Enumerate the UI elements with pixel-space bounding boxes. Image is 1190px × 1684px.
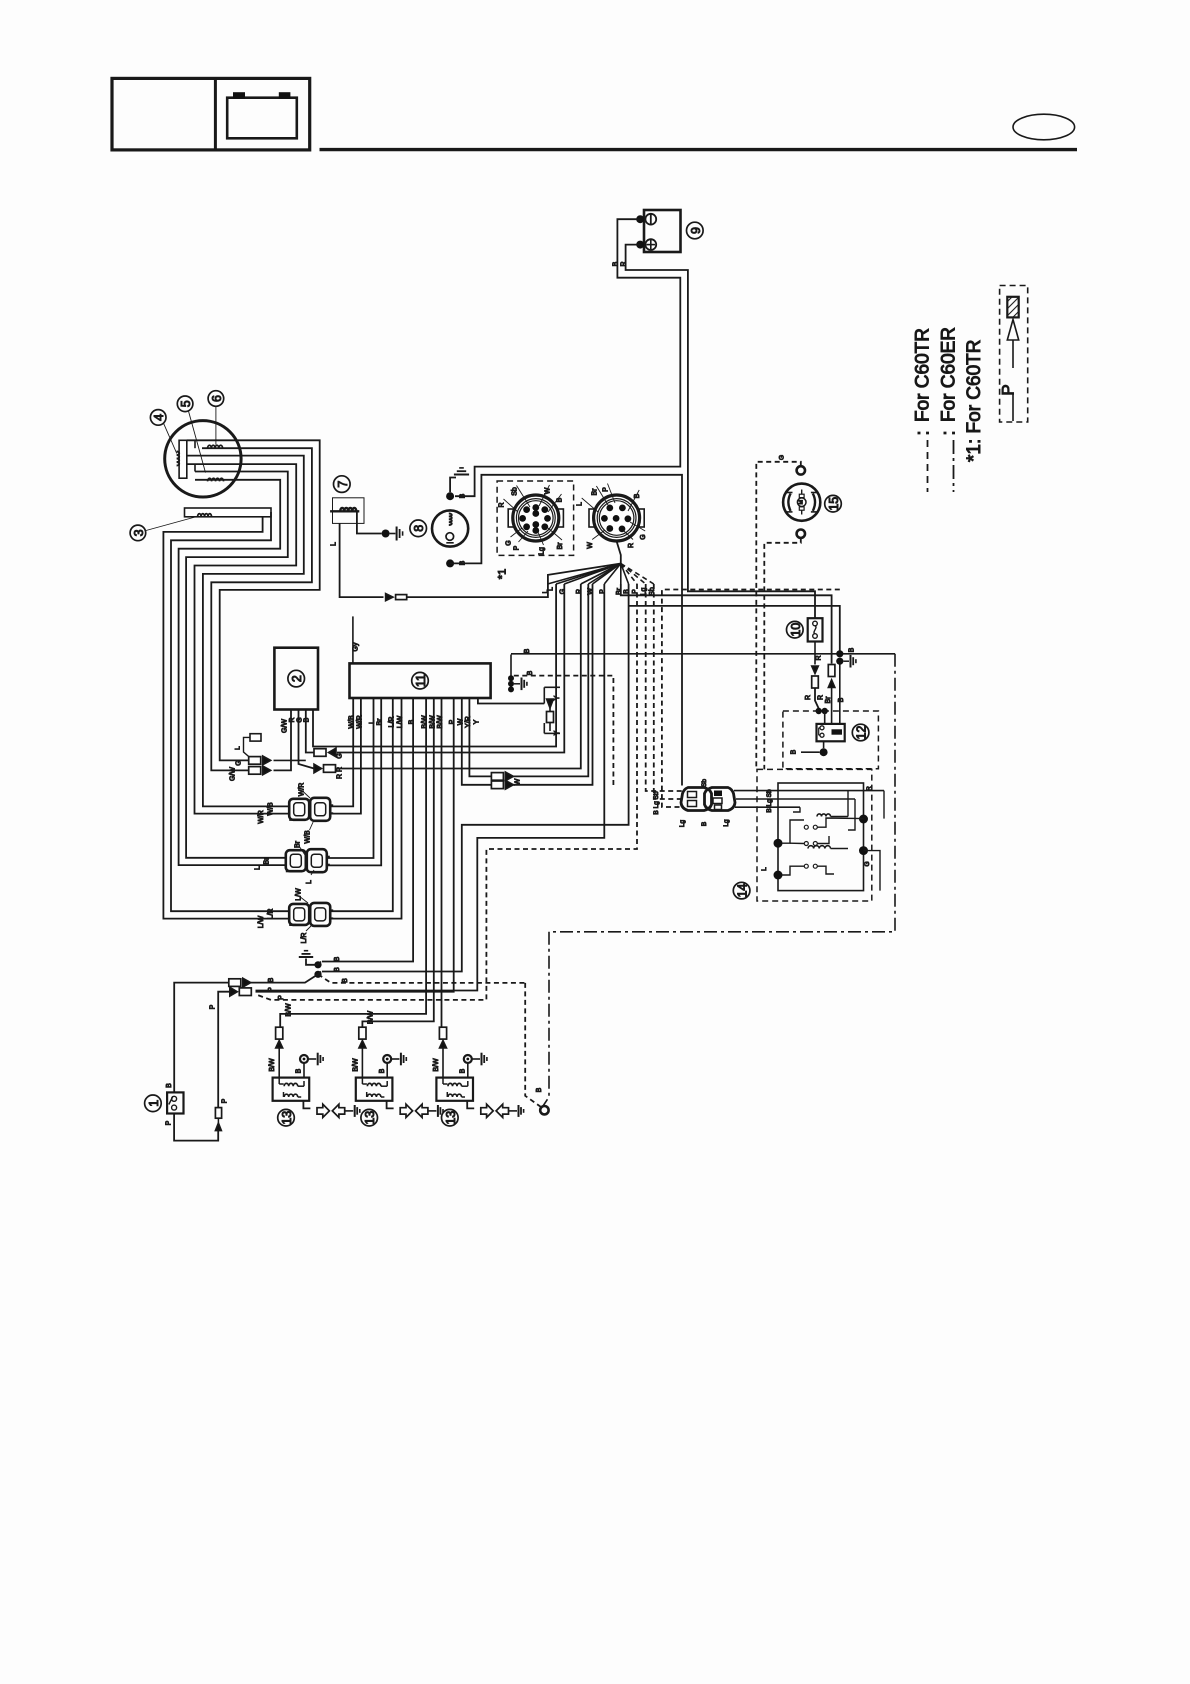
svg-text:1: 1: [147, 1100, 161, 1107]
svg-text:For C60ER: For C60ER: [939, 327, 960, 422]
bullet pair G: [249, 757, 261, 765]
svg-text:3: 3: [132, 529, 146, 536]
svg-text:B/W: B/W: [422, 715, 429, 729]
flywheel magneto circle: [165, 421, 241, 497]
Y/R W bullet connectors: [491, 773, 503, 781]
svg-text:9: 9: [689, 227, 703, 234]
wire YR harness: [513, 584, 589, 776]
CDI pin L/R wire: [331, 698, 393, 911]
label 13: [361, 1109, 378, 1126]
svg-text:P: P: [998, 384, 1017, 395]
svg-text:Br: Br: [264, 857, 271, 865]
svg-text:L/W: L/W: [258, 915, 265, 928]
svg-text:P: P: [632, 589, 639, 594]
magneto wire 4: [187, 464, 296, 813]
svg-text:R: R: [805, 695, 812, 700]
svg-text:L: L: [331, 542, 338, 546]
svg-text:Br: Br: [616, 587, 623, 595]
wire R harness: [337, 584, 581, 769]
label 13: [442, 1109, 459, 1126]
svg-text:B: B: [624, 589, 631, 594]
svg-text:W: W: [587, 542, 594, 549]
Gy wire: [352, 616, 354, 663]
svg-text:B/W: B/W: [286, 1003, 293, 1017]
svg-text:B: B: [612, 261, 619, 266]
label 3: [130, 525, 146, 541]
CDI pin W/B wire: [331, 698, 354, 806]
svg-text::: :: [913, 430, 934, 435]
svg-text:L/R: L/R: [268, 909, 275, 920]
svg-text:B: B: [701, 822, 708, 826]
relay U12: [817, 724, 845, 741]
legend arrow up: [1007, 320, 1018, 341]
label 7: [334, 476, 351, 493]
label 15: [825, 495, 842, 512]
svg-text:15: 15: [827, 497, 841, 511]
wire P harness: [256, 584, 605, 991]
header rule: [320, 148, 1078, 151]
svg-text:B/W: B/W: [433, 1058, 440, 1072]
svg-text:B/W: B/W: [429, 715, 436, 729]
svg-text:B Lg Sb: B Lg Sb: [653, 791, 660, 815]
label 9: [687, 222, 704, 239]
PTT motor terminals: [797, 466, 805, 474]
connector B tail: [617, 541, 621, 563]
svg-text:B/W: B/W: [368, 1011, 375, 1025]
svg-text:L/R: L/R: [388, 717, 395, 728]
connector A labels: [517, 486, 531, 508]
svg-text:2: 2: [290, 675, 304, 682]
svg-text:R: R: [816, 655, 823, 660]
U2 pin G: [306, 710, 314, 753]
svg-text:M: M: [799, 499, 805, 504]
svg-text:L/W: L/W: [295, 888, 302, 901]
charge coil 5: [194, 464, 196, 471]
svg-text:L/W: L/W: [397, 715, 404, 728]
svg-text:R: R: [576, 589, 583, 594]
U8 bottom terminal: [446, 559, 454, 567]
U2 pin B: [313, 584, 556, 747]
CDI unit U11: [350, 663, 491, 698]
thermo switch U7: [333, 498, 365, 524]
svg-text:Lg: Lg: [539, 547, 546, 555]
U2 pin R: [299, 710, 315, 769]
svg-text:B Lg Sb: B Lg Sb: [766, 789, 773, 813]
wire B dashed trim: [662, 590, 840, 808]
svg-text:B: B: [557, 497, 564, 502]
U8 B wire to harness: [450, 475, 682, 786]
svg-text:P: P: [222, 1098, 229, 1103]
ground junction dots: [314, 961, 321, 968]
ignition coil U13: [436, 1078, 473, 1101]
svg-text:13: 13: [444, 1111, 458, 1125]
svg-text::: :: [939, 430, 960, 435]
legend P symbol dashed box: [1000, 286, 1028, 423]
svg-text:B: B: [409, 719, 416, 724]
dashed option box relay: [783, 711, 879, 769]
PTT switch frame wires: [781, 800, 783, 843]
svg-text:8: 8: [412, 525, 426, 532]
svg-text:W/B: W/B: [268, 802, 275, 816]
svg-text:P: P: [210, 1004, 217, 1009]
svg-text:B: B: [527, 670, 534, 675]
bullet pair G right: [314, 749, 326, 757]
svg-text:G: G: [337, 753, 344, 758]
dash-dot B wire right: [543, 654, 895, 1106]
L terminal small: [250, 734, 261, 741]
relay B terminal: [823, 741, 825, 748]
bullet pair G/W: [249, 767, 261, 775]
CDI pin B wire: [322, 698, 413, 962]
svg-text:L: L: [255, 866, 262, 870]
svg-text:R: R: [621, 261, 628, 266]
svg-text:14: 14: [736, 884, 750, 898]
PTT motor dashed wires: [756, 462, 801, 770]
svg-text:W: W: [545, 487, 552, 494]
dashed box *1: [497, 481, 573, 555]
svg-text:P: P: [514, 545, 521, 550]
svg-text:Lg: Lg: [679, 820, 686, 828]
svg-text:13: 13: [280, 1111, 294, 1125]
svg-text:B: B: [268, 977, 275, 982]
svg-text:Y: Y: [554, 695, 561, 700]
svg-text:B: B: [334, 956, 341, 961]
wire Br harness: [621, 584, 832, 664]
svg-text:R: R: [818, 695, 825, 700]
svg-text:R: R: [289, 717, 296, 722]
svg-text:L/R: L/R: [301, 933, 308, 944]
svg-text:G: G: [297, 717, 304, 722]
svg-text:11: 11: [414, 674, 428, 687]
page oval: [1013, 114, 1075, 140]
svg-text:L: L: [235, 746, 242, 750]
R wire below fuse: [814, 642, 816, 665]
B wire junction to relay: [839, 661, 841, 724]
fuse U10: [808, 618, 823, 641]
svg-text:12: 12: [855, 726, 869, 740]
svg-text:Sb: Sb: [512, 487, 519, 496]
svg-text:7: 7: [336, 481, 350, 488]
B terminal ring: [540, 1106, 548, 1114]
svg-text:Y: Y: [554, 730, 561, 735]
label 12: [852, 724, 869, 741]
svg-text:B: B: [379, 1068, 386, 1073]
svg-text:W: W: [457, 718, 464, 725]
svg-text:P: P: [449, 719, 456, 724]
svg-text:L: L: [543, 589, 550, 593]
wire battery B: [455, 219, 680, 496]
svg-text:B: B: [334, 967, 341, 972]
svg-text:B: B: [524, 648, 531, 653]
CDI pin L wire: [327, 698, 373, 858]
CDI pin L/W wire: [331, 698, 402, 919]
wire B harness: [322, 584, 629, 972]
trim ground junction: [836, 650, 843, 657]
stator core T: [179, 440, 187, 478]
svg-text:*1: For C60TR: *1: For C60TR: [964, 340, 985, 462]
svg-text:5: 5: [179, 400, 193, 407]
PTT switch internals: [774, 839, 783, 848]
svg-text:B: B: [634, 493, 641, 498]
wire Lg dashed harness: [646, 584, 683, 791]
svg-text:B: B: [460, 493, 467, 498]
junction B wires: [318, 962, 321, 965]
header box: [112, 78, 310, 149]
svg-text:*1: *1: [497, 569, 509, 579]
label 8: [410, 520, 427, 537]
bullet pair P bottom: [230, 987, 238, 996]
wire B harness branch to ground junction: [629, 606, 840, 652]
Br bullet pair vertical: [828, 665, 835, 677]
P wire to stop switch circuit: [218, 992, 230, 1108]
coil 3 wire A: [163, 517, 289, 919]
svg-text:L: L: [369, 720, 376, 724]
svg-text:G: G: [640, 534, 647, 539]
svg-text:Sb: Sb: [701, 779, 708, 787]
B bus junction dots: [510, 655, 512, 692]
wire G harness: [337, 584, 564, 753]
svg-text:Br: Br: [591, 488, 598, 496]
connector pair W/R W/B: [289, 799, 309, 820]
CDI pin P wire: [256, 698, 454, 992]
magneto wire 2: [202, 448, 312, 770]
wire P dashed harness: [258, 584, 637, 1000]
svg-text:G: G: [779, 455, 786, 460]
svg-text:B: B: [166, 1083, 173, 1088]
U8 top terminal: [446, 492, 454, 500]
trim connector pair: [681, 788, 712, 811]
connector on L wire: [386, 594, 393, 601]
svg-text:Lg: Lg: [641, 588, 648, 596]
svg-text:Br: Br: [825, 696, 832, 704]
svg-text:W: W: [515, 778, 522, 785]
svg-text:W/R: W/R: [258, 810, 265, 824]
ignition coil U13: [356, 1078, 393, 1101]
R bullet pair vertical: [812, 666, 819, 674]
sensor U8: [432, 510, 468, 546]
PTT motor U15: [783, 484, 820, 521]
coil U3 bar: [185, 508, 272, 517]
trim connector wires to switch: [734, 790, 884, 792]
svg-text:10: 10: [789, 623, 803, 637]
battery U9: [644, 210, 681, 252]
svg-text:B: B: [296, 1068, 303, 1073]
magneto wire 1: [187, 440, 320, 760]
svg-text:B: B: [791, 749, 798, 754]
wire battery R: [626, 245, 815, 619]
B wire to stop switch: [174, 983, 229, 1093]
lighting coil 6: [194, 440, 196, 448]
svg-text:L: L: [761, 867, 768, 871]
CDI pin Y wire + fuse: [478, 698, 544, 704]
CDI pin W wire: [462, 698, 492, 785]
svg-text:B/W: B/W: [437, 715, 444, 729]
svg-text:P: P: [268, 987, 275, 992]
svg-text:R: R: [499, 502, 506, 507]
label 10: [787, 621, 804, 638]
U7 ground wire: [357, 511, 382, 533]
svg-text:B: B: [460, 1068, 467, 1073]
bullet pair B bottom: [229, 979, 241, 987]
label 6: [208, 391, 224, 407]
svg-text:P: P: [278, 995, 285, 1000]
label 13: [278, 1109, 295, 1126]
connector B labels: [596, 486, 608, 505]
svg-text:Br: Br: [377, 718, 384, 726]
svg-text:Br: Br: [557, 542, 564, 550]
engine stop switch U1: [167, 1092, 183, 1113]
svg-text:R R: R R: [337, 767, 344, 779]
svg-text:B/W: B/W: [269, 1058, 276, 1072]
connector pair L/W L/R: [289, 904, 309, 925]
svg-text:W/R: W/R: [356, 715, 363, 729]
svg-text:B/W: B/W: [352, 1058, 359, 1072]
svg-text:G: G: [864, 861, 871, 866]
CDI pin Y/R wire: [469, 698, 491, 776]
wire Sb dashed harness: [654, 584, 683, 799]
junction B dashed wire: [318, 974, 525, 983]
svg-text:13: 13: [363, 1111, 377, 1125]
svg-text:P: P: [603, 487, 610, 492]
ignition coil U13: [273, 1078, 310, 1101]
svg-text:B: B: [838, 697, 845, 702]
svg-text:B: B: [342, 978, 349, 983]
svg-text:B: B: [849, 647, 856, 652]
rectifier U2: [274, 648, 318, 710]
B bus ground: [514, 683, 520, 685]
connector pair Br L: [286, 850, 306, 871]
svg-text:W/B: W/B: [349, 715, 356, 729]
svg-text:For C60TR: For C60TR: [913, 328, 934, 422]
magneto wire 3: [187, 456, 304, 807]
dashed box U14: [757, 769, 872, 901]
svg-text:L: L: [577, 502, 584, 506]
pulser coil 4: [177, 452, 180, 466]
magneto wire 6: [179, 480, 287, 865]
svg-text:R: R: [628, 543, 635, 548]
svg-text:Lg: Lg: [723, 819, 730, 827]
label 14: [733, 882, 750, 899]
svg-text:Y/R: Y/R: [465, 716, 472, 728]
round connector A: [508, 509, 513, 527]
svg-text:L: L: [306, 880, 313, 884]
wire W harness: [513, 584, 593, 785]
svg-text:Y: Y: [473, 719, 480, 724]
svg-text:W/B: W/B: [305, 830, 312, 844]
U2 pin G/W: [274, 710, 292, 771]
U1 P wire: [174, 1114, 218, 1141]
svg-text:R: R: [866, 786, 873, 791]
PTT switch box: [778, 783, 864, 891]
round connector B: [589, 509, 594, 527]
svg-text:6: 6: [210, 395, 224, 402]
magneto wire 5: [186, 472, 288, 858]
bullet pair R right: [314, 764, 322, 773]
battery icon: [227, 98, 297, 139]
svg-text:G: G: [559, 589, 566, 594]
CDI pin Br wire: [327, 698, 381, 865]
svg-text:Br: Br: [295, 840, 302, 848]
svg-text:4: 4: [152, 414, 166, 421]
B bus line: [511, 653, 895, 655]
svg-text:G: G: [236, 760, 243, 765]
svg-text:B: B: [304, 717, 311, 722]
svg-text:B: B: [536, 1087, 543, 1092]
svg-text:G/W: G/W: [282, 719, 289, 733]
svg-text:G: G: [506, 540, 513, 545]
B dashed from bus: [514, 676, 614, 786]
harness fan-out: [548, 564, 621, 585]
P bullet vertical: [215, 1123, 221, 1131]
svg-text:W/R: W/R: [299, 783, 306, 797]
CDI pin B/W wires: [280, 698, 426, 1027]
U7 L wire: [340, 523, 384, 597]
label 4: [150, 410, 166, 426]
svg-text:G/W: G/W: [230, 767, 237, 781]
svg-text:Gy: Gy: [352, 642, 359, 651]
double dot junction: [816, 708, 822, 714]
svg-text:P: P: [166, 1120, 173, 1125]
label 5: [177, 396, 193, 412]
coil 3 wire B: [171, 512, 290, 911]
PTT switch coils: [817, 814, 831, 817]
CDI pin W/R wire: [331, 698, 361, 814]
svg-text:P: P: [599, 589, 606, 594]
